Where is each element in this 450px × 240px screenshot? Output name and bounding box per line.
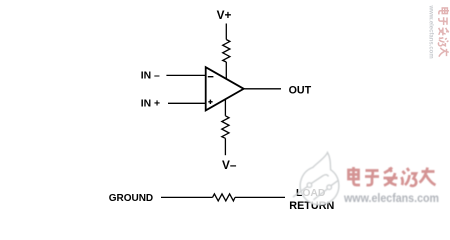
- watermark logo (elecfans, bottom right): [293, 153, 339, 205]
- wire V+ to resistor: [225, 24, 227, 40]
- op-amp U1: [206, 67, 244, 110]
- svg-text:V+: V+: [217, 8, 232, 22]
- svg-text:IN +: IN +: [141, 99, 160, 110]
- wire resistor to load return: [235, 196, 285, 198]
- svg-text:V–: V–: [222, 158, 237, 172]
- svg-text:www.elecfans.com: www.elecfans.com: [343, 193, 439, 205]
- svg-text:GROUND: GROUND: [109, 193, 153, 204]
- wire op-amp bottom edge to resistor: [224, 100, 226, 116]
- wire resistor to op-amp top edge: [225, 62, 227, 79]
- watermark text 电子发烧友 www.elecfans.com (bottom right): [343, 167, 439, 205]
- resistor (load return): [213, 194, 236, 201]
- wire IN- to op-amp: [166, 74, 205, 76]
- wire GROUND to resistor: [161, 196, 213, 198]
- resistor (V+ supply): [223, 40, 230, 63]
- svg-text:IN –: IN –: [141, 71, 160, 82]
- wire IN+ to op-amp: [168, 102, 206, 104]
- op-amp inverting input marker: [208, 76, 214, 78]
- wire op-amp output: [244, 88, 281, 90]
- resistor (V- supply): [222, 116, 229, 139]
- svg-text:OUT: OUT: [289, 85, 312, 97]
- wire resistor to V-: [224, 138, 226, 155]
- watermark rotated copy (top right edge): [427, 5, 449, 59]
- op-amp non-inverting input marker: [208, 100, 212, 104]
